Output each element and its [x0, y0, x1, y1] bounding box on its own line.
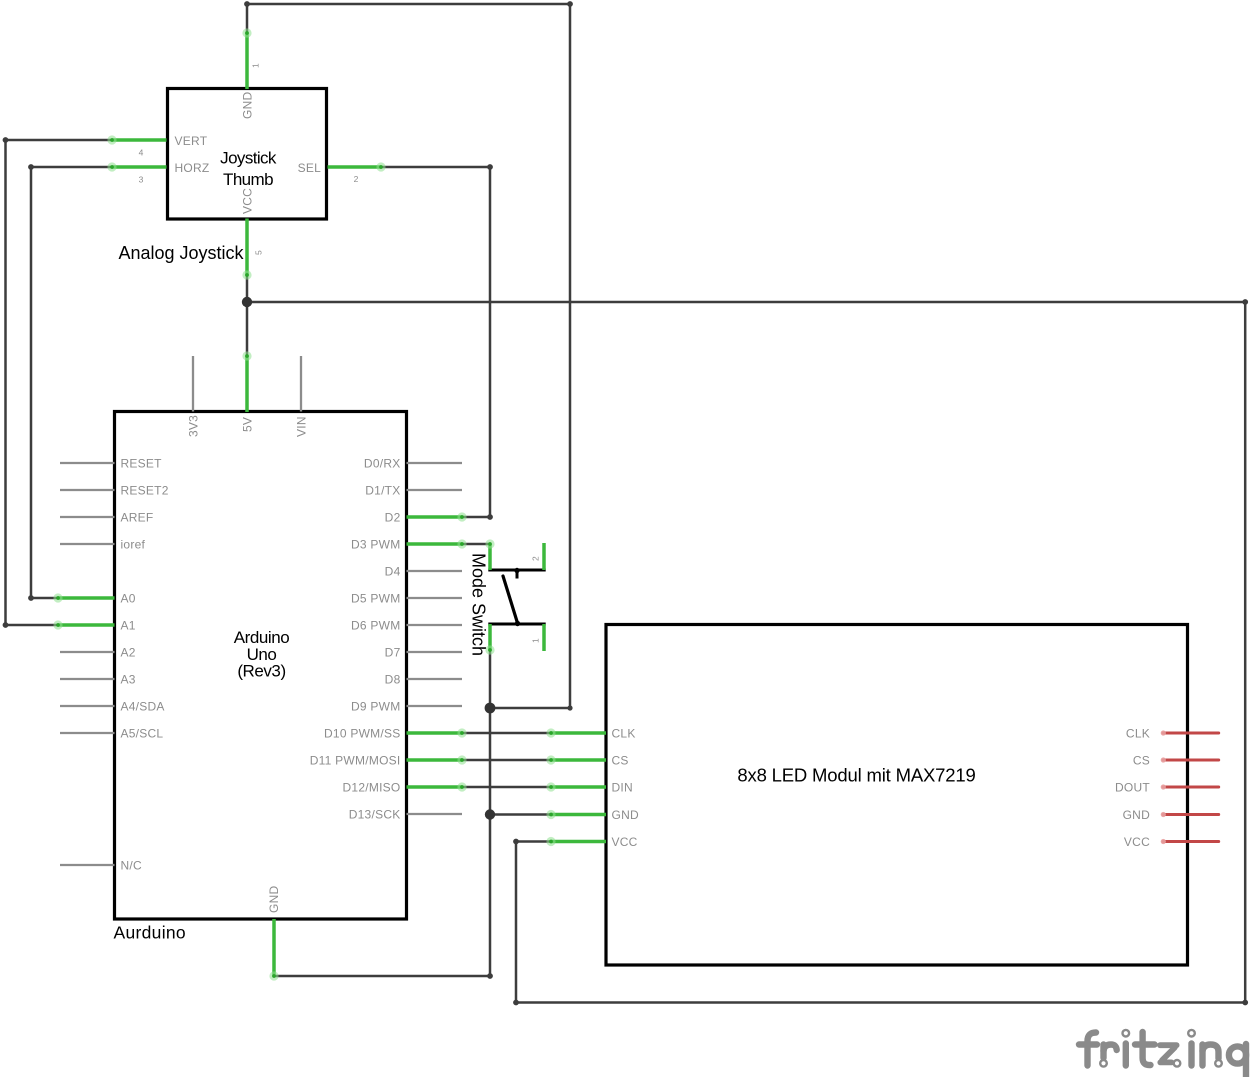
svg-text:1: 1: [251, 63, 261, 68]
fritzing watermark logo: [1079, 1032, 1155, 1066]
svg-text:SEL: SEL: [298, 161, 322, 175]
wire: GND net, switch pin1 down to junction, over to top-right riser: [274, 650, 573, 979]
Arduino D12 green wire overlay: [407, 782, 467, 791]
svg-text:A4/SDA: A4/SDA: [121, 699, 165, 713]
svg-text:D3 PWM: D3 PWM: [351, 537, 401, 551]
svg-text:RESET2: RESET2: [121, 483, 169, 497]
switch S1 bottom contact bar: [488, 623, 545, 626]
svg-text:D4: D4: [385, 564, 401, 578]
Arduino left pin lead ioref: [60, 543, 115, 545]
Arduino left pin lead A4/SDA: [60, 705, 115, 707]
switch S1 pin 2 right leg (green): [542, 543, 546, 570]
Arduino right pin lead D9 PWM: [407, 705, 463, 707]
svg-text:8x8 LED Modul mit MAX7219: 8x8 LED Modul mit MAX7219: [737, 765, 975, 786]
svg-text:D11 PWM/MOSI: D11 PWM/MOSI: [310, 753, 401, 767]
Arduino D3 green wire overlay: [407, 539, 467, 548]
svg-text:D5 PWM: D5 PWM: [351, 591, 401, 605]
Arduino left pin lead A1: [60, 624, 115, 626]
svg-text:D12/MISO: D12/MISO: [342, 780, 400, 794]
Arduino left pin lead N/C: [60, 864, 115, 866]
Arduino left pin lead A0: [60, 597, 115, 599]
svg-text:A2: A2: [121, 645, 136, 659]
Arduino right pin lead D1/TX: [407, 489, 463, 491]
svg-text:D0/RX: D0/RX: [364, 456, 401, 470]
Arduino Uno U2 body: [115, 412, 407, 920]
module left pin green wire DIN: [546, 782, 606, 791]
Arduino bottom pin lead GND (green wire): [269, 919, 278, 981]
Arduino right pin lead D10 PWM/SS: [407, 732, 463, 734]
wire: joystick VERT to Arduino A1: [3, 137, 112, 628]
svg-text:GND: GND: [267, 886, 281, 914]
joystick U1 "Joystick Thumb" body: [168, 89, 327, 220]
svg-text:5V: 5V: [240, 417, 254, 432]
svg-text:DOUT: DOUT: [1115, 780, 1150, 794]
svg-text:4: 4: [139, 148, 144, 158]
joystick pin 1 lead (GND, green): [242, 28, 251, 89]
svg-text:RESET: RESET: [121, 456, 163, 470]
switch S1 pin 1 right leg (green): [542, 624, 546, 651]
switch S1 pin 2 left leg (green): [485, 539, 494, 570]
Arduino left pin lead AREF: [60, 516, 115, 518]
svg-text:3V3: 3V3: [186, 415, 200, 437]
wire: 5V/VCC net, long loop right side to LED module VCC: [247, 299, 1248, 1005]
joystick pin 2 lead (SEL, green): [328, 162, 386, 171]
node: VCC junction at joystick VCC column: [242, 297, 252, 307]
Arduino D2 green wire overlay: [407, 512, 467, 521]
svg-text:CS: CS: [612, 753, 629, 767]
svg-text:HORZ: HORZ: [175, 161, 210, 175]
svg-text:2: 2: [354, 174, 359, 184]
switch S1 pin 1 left leg (green): [485, 624, 494, 655]
svg-text:A0: A0: [121, 591, 136, 605]
Arduino top pin lead 3V3: [192, 356, 194, 412]
svg-text:D10 PWM/SS: D10 PWM/SS: [324, 726, 401, 740]
Arduino right pin lead D3 PWM: [407, 543, 463, 545]
wire: Arduino D11 to module CS: [462, 759, 551, 762]
svg-text:GND: GND: [612, 808, 640, 822]
module right pin lead CLK (red, unconnected): [1161, 730, 1219, 735]
Arduino title: [234, 628, 289, 681]
svg-text:(Rev3): (Rev3): [237, 662, 285, 681]
module left pin green wire VCC: [546, 837, 606, 846]
svg-text:D2: D2: [385, 510, 401, 524]
Arduino right pin lead D7: [407, 651, 463, 653]
Arduino left pin lead A3: [60, 678, 115, 680]
Arduino A0 green wire overlay: [53, 593, 114, 602]
Arduino right pin lead D4: [407, 570, 463, 572]
module left pin green wire CS: [546, 755, 606, 764]
LED module U3 body (8x8 LED Modul mit MAX7219): [606, 625, 1188, 966]
wire: 5V/VCC net, joystick VCC junction down to Arduino 5V: [246, 275, 249, 356]
joystick pin 3 lead (HORZ, green): [107, 162, 166, 171]
Arduino D10 green wire overlay: [407, 728, 467, 737]
Arduino left pin lead A2: [60, 651, 115, 653]
Arduino top pin lead VIN: [300, 356, 302, 412]
Arduino left pin lead RESET: [60, 462, 115, 464]
module right pin lead VCC (red, unconnected): [1161, 839, 1219, 844]
svg-text:Mode Switch: Mode Switch: [469, 553, 489, 656]
svg-text:D7: D7: [385, 645, 401, 659]
wire: Arduino D12 to module DIN: [462, 786, 551, 789]
Arduino right pin lead D13/SCK: [407, 813, 463, 815]
svg-text:CS: CS: [1133, 753, 1150, 767]
svg-text:DIN: DIN: [612, 780, 633, 794]
svg-text:VIN: VIN: [294, 416, 308, 437]
Arduino D11 green wire overlay: [407, 755, 467, 764]
svg-text:Joystick: Joystick: [220, 149, 277, 168]
Arduino top pin lead 5V (green wire): [242, 351, 251, 412]
svg-text:GND: GND: [241, 92, 255, 120]
module left pin green wire GND: [546, 810, 606, 819]
svg-text:D13/SCK: D13/SCK: [349, 807, 401, 821]
node: GND junction below switch (D9 level): [485, 703, 496, 714]
svg-text:D6 PWM: D6 PWM: [351, 618, 401, 632]
wire: joystick HORZ to Arduino A0: [28, 164, 112, 601]
svg-text:Aurduino: Aurduino: [114, 923, 186, 943]
svg-text:CLK: CLK: [612, 726, 636, 740]
Arduino right pin lead D0/RX: [407, 462, 463, 464]
svg-text:D8: D8: [385, 672, 401, 686]
svg-text:A1: A1: [121, 618, 136, 632]
svg-text:Analog Joystick: Analog Joystick: [119, 243, 245, 263]
svg-text:VCC: VCC: [241, 188, 255, 214]
svg-text:VCC: VCC: [612, 835, 638, 849]
wire: GND net, joystick pin1 to top-right corner: [244, 1, 573, 708]
svg-text:A5/SCL: A5/SCL: [121, 726, 164, 740]
svg-text:3: 3: [139, 175, 144, 185]
svg-text:AREF: AREF: [121, 510, 154, 524]
Arduino right pin lead D5 PWM: [407, 597, 463, 599]
wire: GND junction to LED module GND: [490, 813, 551, 816]
joystick pin 4 lead (VERT, green): [107, 135, 166, 144]
Arduino right pin lead D12/MISO: [407, 786, 463, 788]
wire: Arduino D10 to module CLK: [462, 732, 551, 735]
Arduino right pin lead D2: [407, 516, 463, 518]
module right pin lead CS (red, unconnected): [1161, 757, 1219, 762]
svg-text:GND: GND: [1123, 808, 1151, 822]
Arduino left pin lead A5/SCL: [60, 732, 115, 734]
joystick pin 5 lead (VCC, green): [242, 219, 251, 280]
svg-text:A3: A3: [121, 672, 136, 686]
module right pin lead DOUT (red, unconnected): [1161, 784, 1219, 789]
svg-text:N/C: N/C: [121, 858, 143, 872]
svg-text:ioref: ioref: [121, 537, 146, 551]
wire: joystick SEL to Arduino D2: [381, 164, 493, 520]
switch S1 top contact bar: [488, 569, 545, 572]
svg-text:D9 PWM: D9 PWM: [351, 699, 401, 713]
svg-text:D1/TX: D1/TX: [365, 483, 400, 497]
svg-text:2: 2: [531, 556, 541, 561]
module right pin lead GND (red, unconnected): [1161, 812, 1219, 817]
Arduino right pin lead D6 PWM: [407, 624, 463, 626]
svg-text:VERT: VERT: [175, 134, 208, 148]
Arduino left pin lead RESET2: [60, 489, 115, 491]
Arduino right pin lead D8: [407, 678, 463, 680]
svg-text:VCC: VCC: [1124, 835, 1150, 849]
svg-text:1: 1: [531, 638, 541, 643]
svg-text:5: 5: [254, 250, 264, 255]
Arduino right pin lead D11 PWM/MOSI: [407, 759, 463, 761]
switch S1 lever: [503, 568, 520, 626]
joystick title: [220, 149, 277, 189]
module left pin green wire CLK: [546, 728, 606, 737]
svg-text:Thumb: Thumb: [223, 170, 273, 189]
wire: Arduino D3 to Mode Switch pin 2: [462, 543, 490, 546]
Arduino A1 green wire overlay: [53, 620, 114, 629]
node: GND junction at module GND row: [485, 809, 495, 819]
svg-text:CLK: CLK: [1126, 726, 1150, 740]
